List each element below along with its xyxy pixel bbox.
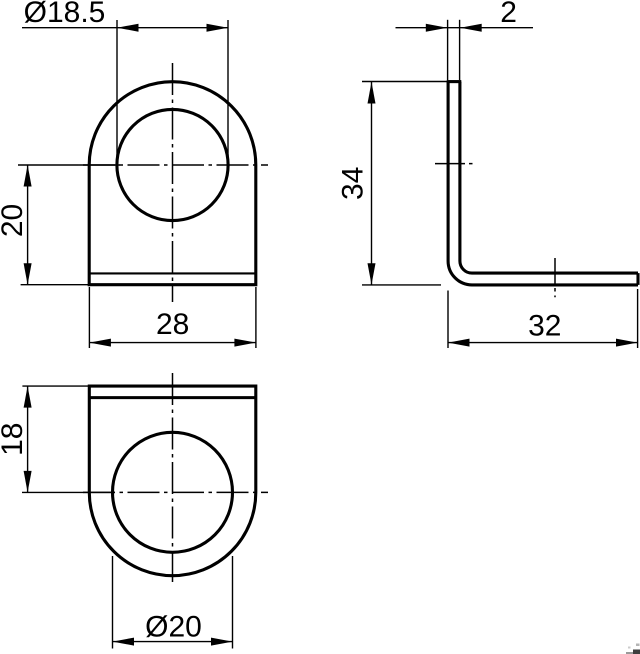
svg-text:28: 28 [156,308,189,341]
svg-text:32: 32 [528,309,561,342]
svg-text:Ø18.5: Ø18.5 [24,0,106,29]
svg-text:2: 2 [500,0,517,29]
svg-text:18: 18 [0,423,29,456]
svg-text:Ø20: Ø20 [145,611,202,644]
svg-text:34: 34 [336,167,369,200]
svg-text:20: 20 [0,204,29,237]
